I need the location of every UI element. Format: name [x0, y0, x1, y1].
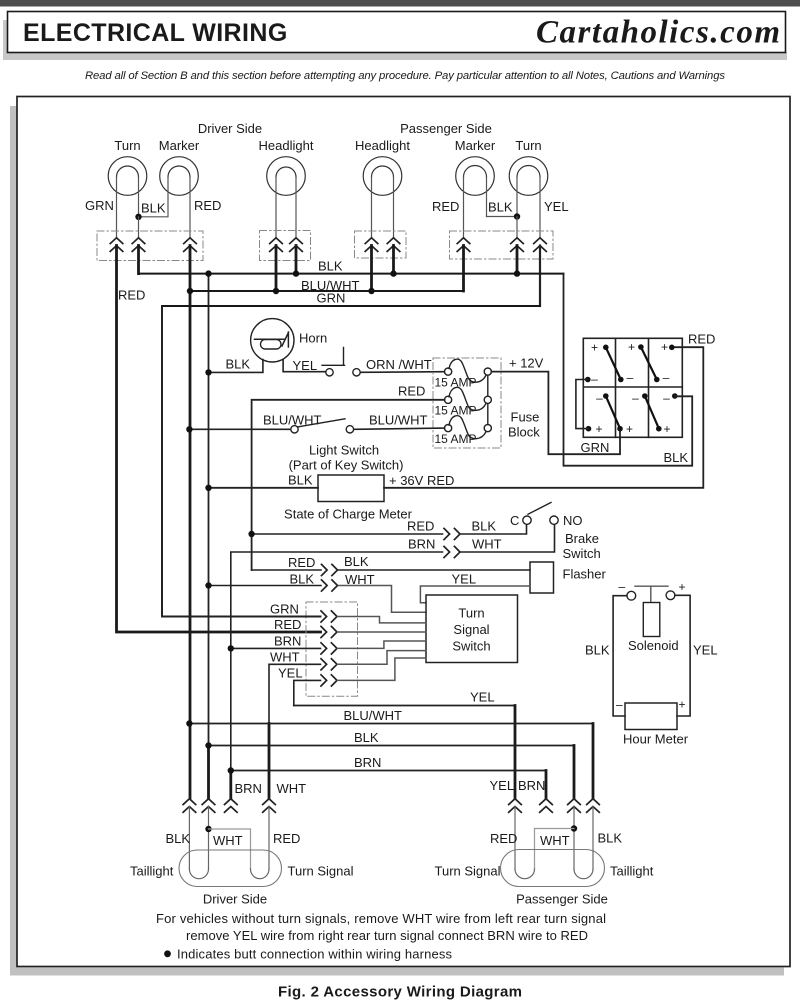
- svg-text:BLK: BLK: [344, 554, 369, 569]
- flasher box: [530, 562, 554, 593]
- taillight loop driver left: [189, 869, 208, 879]
- svg-text:BLK: BLK: [226, 357, 251, 372]
- wire YEL input left: [294, 680, 321, 705]
- svg-text:Flasher: Flasher: [563, 567, 607, 582]
- wire BLK marker2 right leg: [486, 177, 488, 217]
- node BLK bus headlight2: [390, 270, 396, 276]
- node WHT passenger: [571, 825, 577, 831]
- battery series loop B1- to B4+: [576, 380, 589, 429]
- wire taillight BLK passenger: [592, 807, 594, 870]
- lamp turn driver: [108, 157, 147, 196]
- butt connector BLK front driver: [132, 238, 145, 252]
- svg-text:RED: RED: [398, 384, 425, 399]
- svg-text:–: –: [616, 698, 623, 712]
- svg-text:+: +: [663, 422, 670, 436]
- node RED brake row: [248, 531, 254, 537]
- butt connector BRN/WHT brake: [444, 546, 460, 557]
- svg-text:BLU/WHT: BLU/WHT: [369, 413, 428, 428]
- butt connector BLU/WHT headlight2: [365, 238, 378, 252]
- wire BLU/WHT light switch feed: [189, 428, 290, 430]
- svg-text:BLK: BLK: [472, 519, 497, 534]
- wire BLK to flasher: [339, 569, 531, 571]
- svg-text:RED: RED: [273, 831, 300, 846]
- svg-text:BLK: BLK: [488, 200, 513, 215]
- wire BLU/WHT headlight2 left leg: [371, 177, 373, 237]
- svg-text:+: +: [626, 422, 633, 436]
- hour meter box: [625, 703, 677, 730]
- svg-text:Turn Signal: Turn Signal: [435, 864, 501, 879]
- wire BLK jog passenger: [487, 177, 518, 217]
- svg-text:RED: RED: [274, 617, 301, 632]
- wire YEL flasher to switch: [420, 586, 530, 603]
- svg-text:RED: RED: [288, 555, 315, 570]
- wire horn BLK: [209, 360, 263, 373]
- wire WHT input left: [269, 664, 321, 723]
- svg-text:RED: RED: [194, 198, 221, 213]
- svg-text:+: +: [628, 340, 635, 354]
- wire WHT branch driver: [209, 829, 251, 869]
- butt connector rear passenger RED: [509, 799, 522, 813]
- wire horn YEL: [283, 360, 326, 372]
- svg-text:NO: NO: [563, 513, 583, 528]
- svg-text:BLK: BLK: [290, 572, 315, 587]
- svg-text:YEL: YEL: [293, 358, 318, 373]
- svg-text:Passenger Side: Passenger Side: [400, 121, 492, 136]
- taillight loop passenger left: [515, 869, 535, 879]
- svg-text:Switch: Switch: [452, 639, 490, 654]
- horn switch: [326, 369, 333, 376]
- butt connector RED/BLK brake: [444, 528, 460, 539]
- svg-text:Taillight: Taillight: [610, 864, 654, 879]
- svg-text:Turn: Turn: [515, 138, 541, 153]
- svg-text:BRN: BRN: [518, 778, 545, 793]
- solenoid terminals: [627, 591, 636, 600]
- svg-text:–: –: [663, 371, 670, 385]
- svg-text:WHT: WHT: [213, 833, 243, 848]
- svg-text:Taillight: Taillight: [130, 864, 174, 879]
- svg-text:BLK: BLK: [141, 201, 166, 216]
- taillight stadium passenger: [501, 850, 605, 887]
- node bus2 headlight1: [273, 288, 279, 294]
- svg-text:BRN: BRN: [354, 755, 381, 770]
- wire YEL turn2 right leg: [539, 177, 541, 237]
- svg-text:–: –: [591, 372, 598, 386]
- svg-text:+: +: [661, 340, 668, 354]
- wire BRN input left: [231, 647, 321, 649]
- svg-text:remove YEL wire from right rea: remove YEL wire from right rear turn sig…: [186, 928, 588, 943]
- solenoid coil: [643, 603, 660, 637]
- svg-text:Turn: Turn: [114, 138, 140, 153]
- svg-text:Hour Meter: Hour Meter: [623, 732, 689, 747]
- svg-text:Marker: Marker: [455, 138, 496, 153]
- lamp marker driver: [160, 157, 199, 196]
- svg-text:Read all of Section B and this: Read all of Section B and this section b…: [85, 70, 725, 82]
- taillight loop driver right: [251, 869, 270, 879]
- wire BLK battery return: [564, 274, 693, 466]
- svg-text:YEL: YEL: [278, 666, 303, 681]
- node BLK row2: [205, 582, 211, 588]
- svg-text:YEL: YEL: [452, 572, 477, 587]
- svg-text:RED: RED: [490, 831, 517, 846]
- butt connector RED front passenger: [457, 238, 470, 252]
- wire BLK headlight1 right leg: [295, 177, 297, 237]
- node BLK rear: [205, 742, 211, 748]
- svg-text:C: C: [510, 513, 519, 528]
- taillight loop passenger right: [574, 869, 593, 879]
- wire RED fuse2 feed: [252, 400, 445, 570]
- taillight stadium driver: [179, 850, 282, 887]
- butt connector BRN input: [321, 643, 337, 654]
- svg-text:–: –: [632, 391, 639, 405]
- svg-text:RED: RED: [688, 332, 715, 347]
- wire YEL input right: [338, 658, 427, 680]
- butt connector BLK headlight2: [387, 238, 400, 252]
- lamp headlight driver: [267, 157, 306, 196]
- node BRN rear: [228, 767, 234, 773]
- fuse F3 15 AMP: [445, 425, 452, 432]
- note bullet: [164, 950, 171, 957]
- node bus2 headlight2: [368, 288, 374, 294]
- wire BLK harness to bus: [137, 246, 140, 274]
- svg-text:ORN /WHT: ORN /WHT: [366, 357, 432, 372]
- svg-text:–: –: [619, 580, 626, 594]
- svg-text:+: +: [591, 341, 598, 355]
- butt connector BLU/WHT headlight1: [270, 238, 283, 252]
- node BLK passenger: [514, 213, 520, 219]
- solenoid bar: [635, 586, 668, 602]
- node BLK meter: [205, 485, 211, 491]
- svg-text:+: +: [679, 698, 686, 712]
- state of charge meter box: [318, 475, 384, 502]
- node BLU/WHT light switch: [186, 426, 192, 432]
- butt connector GRN/RED front: [110, 238, 123, 252]
- node BLK bus passenger: [514, 270, 520, 276]
- wire headlight1 BLU/WHT to bus2: [275, 246, 278, 292]
- svg-text:Block: Block: [508, 425, 540, 440]
- wire BLK to brake switch C: [461, 525, 527, 534]
- svg-text:BRN: BRN: [274, 634, 301, 649]
- butt connector WHT input: [321, 659, 337, 670]
- svg-text:BLU/WHT: BLU/WHT: [344, 708, 403, 723]
- wire taillight RED passenger: [514, 807, 516, 870]
- wire ORN/WHT to fuse1: [361, 371, 445, 374]
- horn icon: [255, 332, 289, 347]
- svg-text:Marker: Marker: [159, 138, 200, 153]
- connector box front passenger lamps: [450, 231, 554, 259]
- svg-text:GRN: GRN: [581, 440, 610, 455]
- svg-text:Headlight: Headlight: [259, 138, 314, 153]
- svg-text:Headlight: Headlight: [355, 138, 410, 153]
- butt connector RED input: [321, 626, 337, 637]
- lamp headlight passenger: [363, 157, 402, 196]
- svg-text:State of Charge Meter: State of Charge Meter: [284, 507, 413, 522]
- svg-text:BLK: BLK: [585, 643, 610, 658]
- wire headlight2 BLU/WHT to bus2: [370, 246, 373, 292]
- wire headlight2 BLK to bus1: [392, 246, 395, 274]
- wire RED brake row: [252, 533, 443, 535]
- svg-text:BLK: BLK: [318, 259, 343, 274]
- svg-text:WHT: WHT: [345, 572, 375, 587]
- butt connector rear driver RED: [263, 799, 276, 813]
- header box: [8, 12, 786, 53]
- svg-text:RED: RED: [432, 199, 459, 214]
- battery pack outline: [583, 338, 682, 437]
- butt connector BLK headlight1: [290, 238, 303, 252]
- node BLK driver: [135, 214, 141, 220]
- wire BLK down to connector passenger: [516, 217, 518, 238]
- svg-text:Solenoid: Solenoid: [628, 638, 679, 653]
- svg-text:GRN: GRN: [317, 291, 346, 306]
- svg-text:WHT: WHT: [277, 781, 307, 796]
- wire BRN brake row: [231, 552, 443, 771]
- wire taillight BLK driver: [188, 807, 190, 870]
- brake switch: [523, 516, 531, 524]
- node BLK bus headlight1: [293, 270, 299, 276]
- svg-text:Passenger Side: Passenger Side: [516, 892, 608, 907]
- wire BLU/WHT bus2: [190, 290, 464, 292]
- butt connector YEL input: [321, 675, 337, 686]
- svg-text:Cartaholics.com: Cartaholics.com: [536, 15, 780, 51]
- svg-text:(Part of Key Switch): (Part of Key Switch): [289, 458, 404, 473]
- svg-text:BLU/WHT: BLU/WHT: [263, 413, 322, 428]
- wire RED harness long vertical: [117, 246, 321, 633]
- wire fuse right bus: [487, 372, 489, 429]
- node horn BLK: [205, 369, 211, 375]
- wire WHT to turn signal switch: [339, 586, 427, 613]
- butt connector rear driver WHT: [202, 799, 215, 813]
- node BLK bus x208: [205, 270, 211, 276]
- wire RED marker2 left leg: [463, 177, 465, 237]
- wire BLK bus: [139, 273, 564, 275]
- svg-text:Horn: Horn: [299, 331, 327, 346]
- wire RED input right: [338, 631, 427, 633]
- light switch: [291, 426, 298, 433]
- wire BLK long vertical x208: [208, 274, 210, 746]
- wire RED flasher row: [252, 569, 321, 571]
- svg-text:GRN: GRN: [85, 198, 114, 213]
- svg-text:For vehicles without turn sign: For vehicles without turn signals, remov…: [156, 911, 606, 926]
- battery link B4- to B5+: [606, 396, 620, 428]
- butt connector BLK/WHT flasher: [322, 580, 338, 591]
- wire BLK headlight2 right leg: [393, 177, 395, 237]
- node BLU/WHT rear: [186, 720, 192, 726]
- butt connector rear passenger BLK: [587, 799, 600, 813]
- wire BLK jog driver: [139, 177, 169, 217]
- diagram border shadow: [10, 106, 17, 975]
- svg-text:–: –: [627, 371, 634, 385]
- butt connector rear driver BLK: [183, 799, 196, 813]
- wire GRN input right: [338, 617, 427, 623]
- wire GRN input left: [162, 616, 321, 618]
- wire YEL passenger harness to bus3: [539, 246, 541, 307]
- svg-text:RED: RED: [118, 288, 145, 303]
- node WHT driver: [205, 826, 211, 832]
- svg-text:BLK: BLK: [166, 831, 191, 846]
- svg-text:+ 12V: + 12V: [509, 356, 544, 371]
- svg-text:+: +: [595, 422, 602, 436]
- wire solenoid YEL: [675, 595, 690, 716]
- connector box turn signal inputs: [306, 602, 358, 696]
- butt connector YEL front passenger: [534, 238, 547, 252]
- wire WHT branch passenger: [535, 829, 575, 870]
- svg-text:15 AMP: 15 AMP: [435, 432, 477, 446]
- turn signal switch box: [426, 595, 518, 663]
- wire WHT to brake switch NO: [461, 525, 555, 552]
- butt connector rear passenger WHT: [568, 799, 581, 813]
- wire taillight WHT driver: [208, 807, 210, 870]
- battery link B5- to B6+: [645, 396, 659, 428]
- svg-text:YEL: YEL: [544, 199, 569, 214]
- svg-text:BLK: BLK: [598, 831, 623, 846]
- wire BLU/WHT rear bus: [189, 723, 593, 725]
- svg-text:RED: RED: [407, 519, 434, 534]
- lamp turn passenger: [509, 157, 548, 196]
- svg-text:Turn: Turn: [458, 606, 484, 621]
- wire +36V RED to battery: [384, 347, 703, 488]
- wire BLU/WHT to fuse3: [354, 428, 445, 429]
- wire BLK passenger harness to bus1: [516, 246, 519, 274]
- wire BLK row2 flasher: [209, 585, 322, 587]
- wire BLK turn1 right leg: [138, 177, 140, 217]
- butt connector rear driver BRN: [225, 799, 238, 813]
- wire BLK down to connector: [138, 217, 140, 237]
- wire WHT input right: [338, 651, 427, 665]
- svg-text:Driver Side: Driver Side: [203, 892, 267, 907]
- connector box front driver lamps: [97, 231, 203, 261]
- wire marker2 RED harness to bus2: [462, 246, 465, 292]
- svg-text:WHT: WHT: [472, 537, 502, 552]
- wire BLK rear bus: [209, 745, 575, 747]
- fuse F1 15 AMP: [445, 368, 452, 375]
- svg-text:Switch: Switch: [563, 546, 601, 561]
- svg-text:–: –: [663, 391, 670, 405]
- svg-text:ELECTRICAL WIRING: ELECTRICAL WIRING: [23, 19, 288, 47]
- butt connector rear passenger BRN: [540, 799, 553, 813]
- butt connector RED/BLK flasher: [322, 564, 338, 575]
- connector box front headlight driver: [260, 231, 311, 261]
- wire solenoid BLK: [613, 596, 627, 716]
- top gray bar: [0, 0, 800, 7]
- svg-text:+: +: [679, 580, 686, 594]
- wire +12V to battery tap: [491, 372, 620, 455]
- svg-text:–: –: [596, 391, 603, 405]
- svg-text:WHT: WHT: [540, 833, 570, 848]
- wire marker RED harness long vertical: [189, 246, 192, 799]
- svg-text:Fuse: Fuse: [511, 410, 540, 425]
- svg-text:BRN: BRN: [408, 537, 435, 552]
- wire YEL rear bus: [294, 705, 515, 707]
- fuse F2 15 AMP: [445, 396, 452, 403]
- svg-text:Indicates butt connection with: Indicates butt connection within wiring …: [177, 947, 453, 962]
- svg-text:YEL: YEL: [470, 690, 495, 705]
- wire BLU/WHT headlight1 left leg: [275, 177, 277, 237]
- battery link B1+ to B2-: [606, 347, 621, 379]
- lamp marker passenger: [456, 157, 495, 196]
- butt connector RED front driver: [184, 238, 197, 252]
- svg-text:BLK: BLK: [664, 450, 689, 465]
- node bus2 marker RED: [187, 288, 193, 294]
- butt connector BLK front passenger: [511, 238, 524, 252]
- wire BRN rear bus: [231, 770, 546, 772]
- wire BRN input right: [338, 641, 427, 648]
- node BRN input: [228, 645, 234, 651]
- svg-text:BLK: BLK: [288, 473, 313, 488]
- svg-text:BRN: BRN: [235, 781, 262, 796]
- svg-text:Driver Side: Driver Side: [198, 121, 262, 136]
- svg-text:WHT: WHT: [270, 650, 300, 665]
- wire taillight RED driver: [268, 807, 270, 870]
- wire GRN turn1 left leg: [116, 177, 118, 237]
- butt connector GRN input: [321, 611, 337, 622]
- wire headlight1 BLK to bus1: [295, 246, 298, 274]
- wire BLK to charge meter: [209, 487, 319, 489]
- svg-text:Fig. 2 Accessory Wiring Diagr: Fig. 2 Accessory Wiring Diagram: [278, 984, 522, 1001]
- connector box front headlight passenger: [355, 231, 407, 258]
- horn circle: [251, 319, 294, 362]
- svg-text:YEL: YEL: [490, 778, 515, 793]
- svg-text:Turn Signal: Turn Signal: [288, 864, 354, 879]
- svg-text:YEL: YEL: [693, 643, 718, 658]
- wire taillight WHT passenger: [573, 807, 575, 870]
- svg-text:BLK: BLK: [354, 730, 379, 745]
- svg-text:Brake: Brake: [565, 531, 599, 546]
- header shadow: [3, 20, 9, 60]
- wire RED marker1 right leg: [189, 177, 191, 237]
- svg-text:Light Switch: Light Switch: [309, 443, 379, 458]
- fuse block box: [433, 358, 501, 448]
- svg-text:GRN: GRN: [270, 602, 299, 617]
- battery link B2+ to B3-: [641, 347, 657, 380]
- svg-text:+ 36V RED: + 36V RED: [389, 473, 454, 488]
- svg-text:Signal: Signal: [453, 622, 489, 637]
- wire GRN bus3: [162, 306, 540, 617]
